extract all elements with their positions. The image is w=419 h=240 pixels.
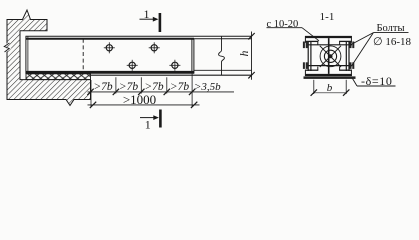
- wall (hatched masonry, left view): [7, 10, 91, 106]
- section mark 1 (top): [140, 7, 160, 32]
- right channel: [339, 41, 352, 71]
- extension line b4: [166, 77, 168, 93]
- bolt hole 2 (upper-right): [149, 42, 160, 53]
- label bolts with leaders: [350, 23, 411, 66]
- channel right end (double line): [191, 39, 193, 74]
- bearing plate delta=10 under bottom flange: [304, 76, 356, 79]
- bolt hole 4 (lower-right): [169, 60, 180, 71]
- svg-text:h: h: [239, 50, 251, 56]
- svg-text:>3,5b: >3,5b: [194, 81, 221, 93]
- svg-text:>1000: >1000: [123, 92, 156, 107]
- label plate delta=10 with leader: [353, 74, 396, 88]
- reinforcing channel bottom edge (thick): [26, 71, 194, 74]
- bolt symbol (washer circles with cross): [320, 46, 341, 67]
- lower bolt: [303, 62, 354, 69]
- extension line wall face: [90, 80, 92, 107]
- extension line b3: [140, 77, 142, 93]
- I-beam bottom flange: [305, 74, 352, 76]
- svg-text:>7b: >7b: [93, 81, 113, 93]
- svg-text:1: 1: [145, 118, 151, 132]
- beam left end (double line in wall pocket): [25, 36, 27, 74]
- extension line channel end: [191, 74, 193, 107]
- svg-text:b: b: [327, 82, 333, 94]
- label channel 10-20 with leader: [267, 19, 320, 41]
- left channel: [306, 41, 319, 71]
- svg-text:∅ 16-18: ∅ 16-18: [373, 36, 411, 48]
- beam top flange top line: [26, 35, 252, 37]
- svg-text:>7b: >7b: [119, 81, 139, 93]
- svg-text:>7b: >7b: [144, 81, 164, 93]
- dimension b (bottom of section): [314, 80, 346, 94]
- I-beam web: [328, 38, 330, 74]
- section mark 1 (bottom): [140, 110, 160, 132]
- beam break symbol: [219, 36, 225, 75]
- upper bolt: [303, 42, 354, 49]
- svg-text:1-1: 1-1: [320, 11, 335, 23]
- bearing plate pad (cross-hatched) under beam in wall: [26, 74, 91, 80]
- I-beam top flange: [305, 36, 352, 38]
- break mark on outer wall face: [4, 43, 9, 52]
- bolt hole 3 (lower-left): [127, 60, 138, 71]
- beam bottom flange top edge beyond channel: [194, 69, 252, 71]
- bolt hole 1 (upper-left): [104, 42, 115, 53]
- dimension line row 1 (>7b spacing): [88, 91, 235, 93]
- tick marks row 1: [87, 89, 195, 95]
- svg-text:>7b: >7b: [170, 81, 190, 93]
- beam bottom flange bottom line: [91, 74, 252, 76]
- svg-text:1: 1: [144, 7, 150, 21]
- beam top flange bottom line: [26, 38, 252, 40]
- extension line b2: [115, 77, 117, 93]
- dimension h (beam depth): [239, 32, 255, 80]
- hidden wall face line (dashed): [82, 39, 84, 74]
- reinforcing channel top edge (thick): [26, 38, 195, 40]
- dimension line row 2 (>1000): [88, 104, 200, 106]
